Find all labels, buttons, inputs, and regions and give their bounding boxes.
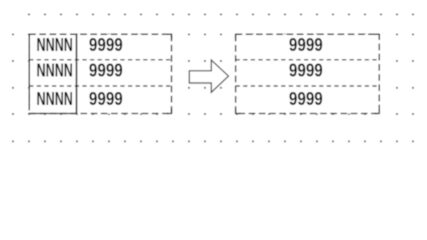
svg-text:NNNN: NNNN — [37, 59, 73, 80]
svg-text:9999: 9999 — [89, 88, 123, 109]
svg-text:NNNN: NNNN — [37, 88, 73, 109]
svg-text:NNNN: NNNN — [37, 34, 73, 55]
svg-text:9999: 9999 — [89, 34, 123, 55]
svg-text:9999: 9999 — [89, 59, 123, 80]
svg-text:9999: 9999 — [289, 34, 323, 55]
svg-text:9999: 9999 — [289, 59, 323, 80]
svg-text:9999: 9999 — [289, 88, 323, 109]
